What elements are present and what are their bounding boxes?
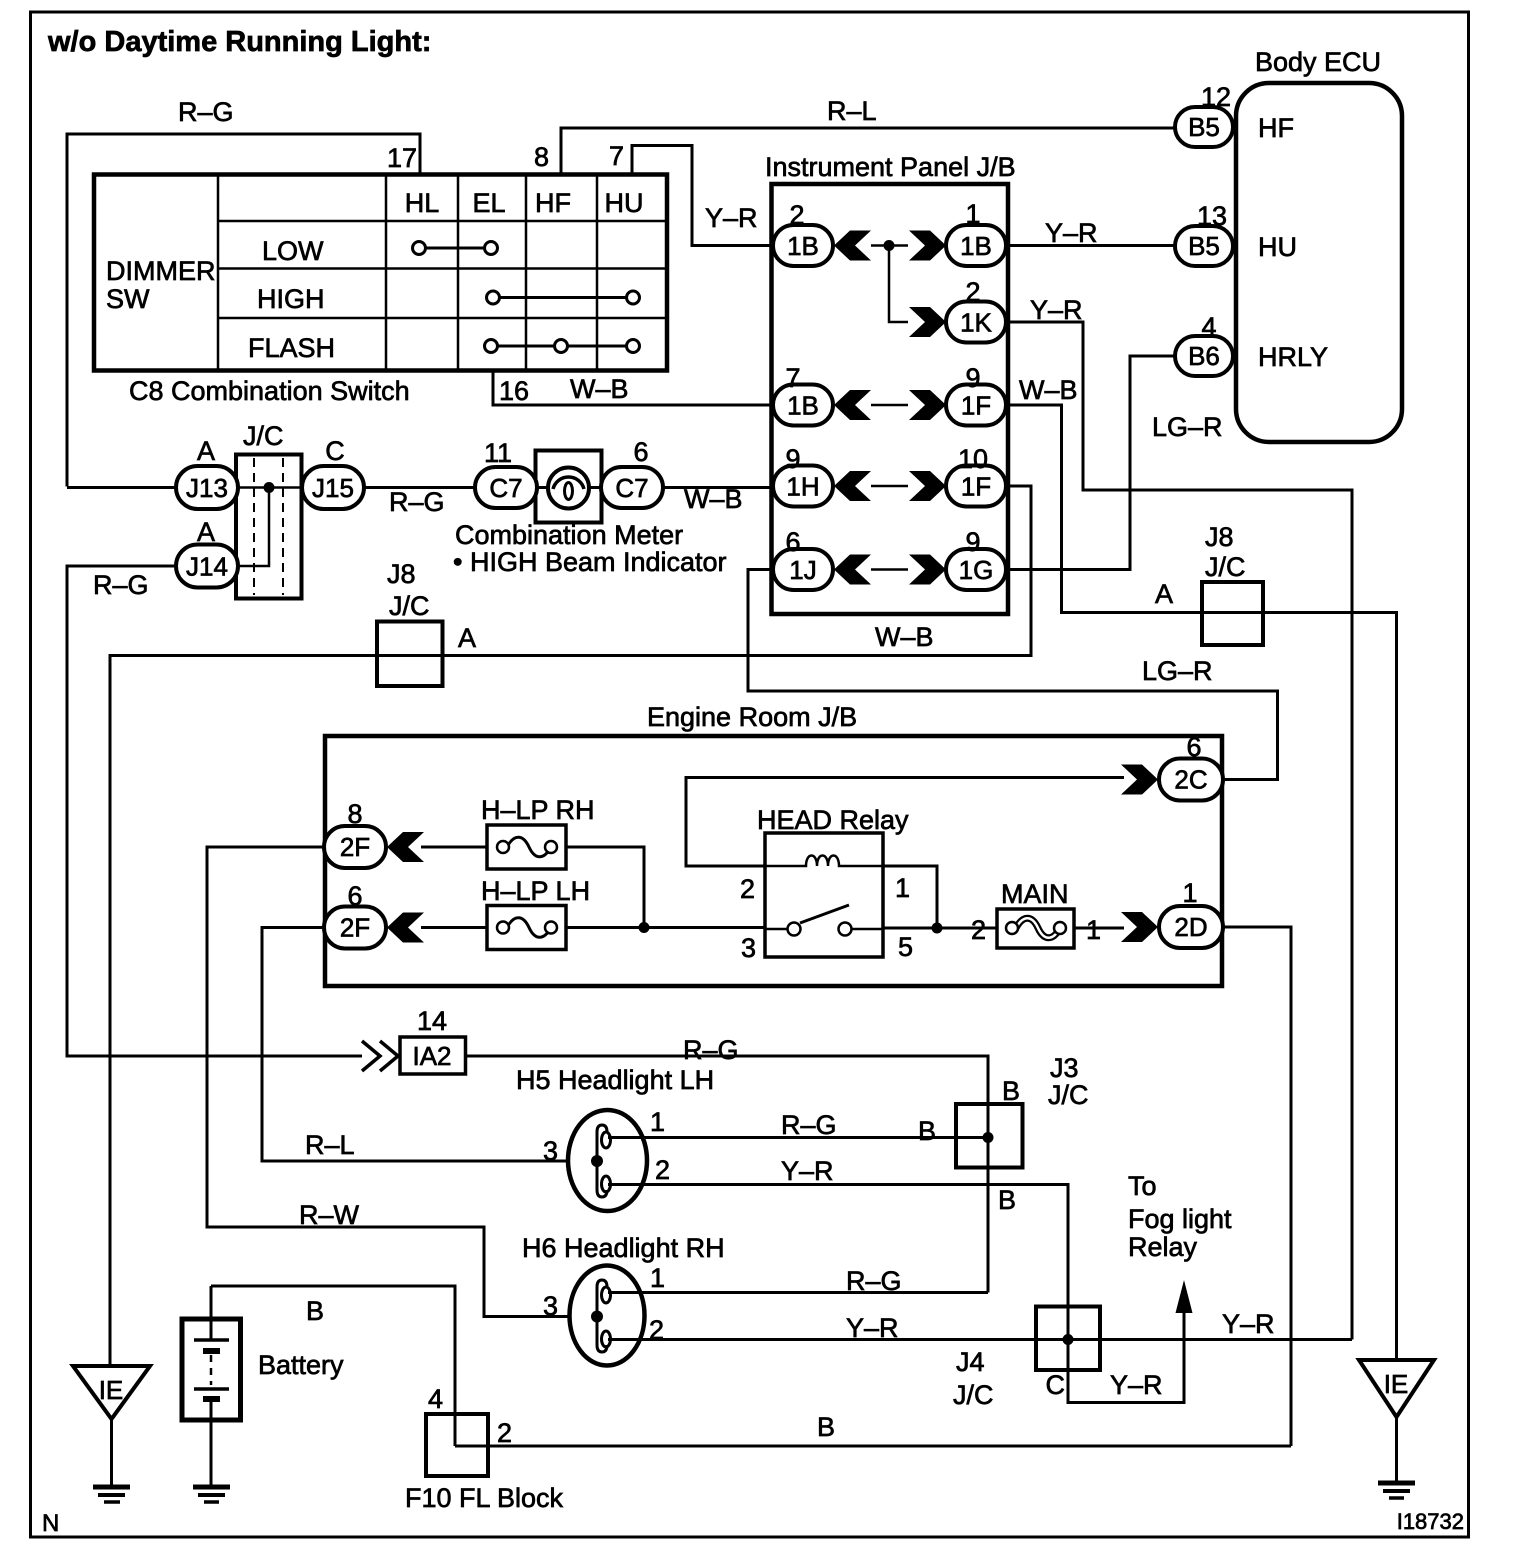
svg-text:A: A [458, 623, 476, 653]
svg-text:HF: HF [535, 188, 571, 218]
H5 Headlight LH [516, 1065, 714, 1211]
wire Y-R from H5 pin 2 to J4 [608, 1156, 1068, 1340]
svg-text:B6: B6 [1188, 341, 1220, 371]
svg-text:7: 7 [609, 141, 624, 171]
wire B from battery to F10 FL block [211, 1286, 455, 1446]
svg-text:2F: 2F [340, 832, 370, 862]
svg-text:12: 12 [1201, 82, 1231, 112]
svg-text:9: 9 [785, 444, 800, 474]
arrow into 1B pin7 (left) [834, 390, 871, 420]
svg-text:J3: J3 [1050, 1053, 1079, 1083]
svg-text:IE: IE [99, 1375, 124, 1405]
svg-text:SW: SW [106, 284, 150, 314]
svg-text:C8 Combination Switch: C8 Combination Switch [129, 376, 410, 406]
svg-text:9: 9 [965, 363, 980, 393]
connector 1B pin 1 [946, 199, 1006, 266]
svg-text:R–G: R–G [389, 487, 445, 517]
HEAD Relay [740, 805, 913, 963]
svg-text:Y–R: Y–R [846, 1313, 899, 1343]
connector C7 pin 6 [601, 437, 663, 508]
svg-text:R–G: R–G [781, 1110, 837, 1140]
svg-text:B: B [817, 1412, 835, 1442]
Body ECU box [1236, 47, 1402, 442]
wire Y-R from 1K pin 2 down right side [1006, 295, 1352, 1340]
svg-text:17: 17 [387, 143, 417, 173]
connector 1J pin 6 [773, 527, 833, 590]
svg-text:C7: C7 [489, 473, 522, 503]
svg-text:Y–R: Y–R [781, 1156, 834, 1186]
connector 1G pin 9 [946, 527, 1006, 590]
battery [182, 1286, 344, 1487]
svg-text:2: 2 [965, 277, 980, 307]
svg-text:1B: 1B [787, 231, 819, 261]
arrow into 1H pin9 (left) [834, 471, 871, 501]
svg-text:16: 16 [499, 376, 529, 406]
svg-text:11: 11 [484, 438, 512, 468]
wire R-G from H6 pin 1 to J3 vertical [608, 1266, 988, 1296]
junction and links inside Instrument Panel J/B [871, 240, 908, 570]
connector B6 pin 4 / HRLY [1175, 312, 1328, 376]
Instrument Panel J/B box [765, 152, 1016, 614]
svg-text:B: B [1002, 1076, 1020, 1106]
dimmer switch HIGH contact [487, 291, 640, 304]
Engine Room J/B box [325, 702, 1222, 986]
wire R-G from IA2 to J3 J/C [466, 1035, 989, 1293]
svg-text:EL: EL [472, 188, 505, 218]
svg-text:6: 6 [633, 437, 648, 467]
svg-text:3: 3 [543, 1136, 558, 1166]
arrow into 1G pin9 (right) [909, 555, 946, 585]
svg-text:R–L: R–L [305, 1130, 355, 1160]
svg-text:J15: J15 [312, 473, 354, 503]
svg-text:14: 14 [417, 1006, 447, 1036]
svg-text:Combination Meter: Combination Meter [455, 520, 683, 550]
arrow into 1B pin2 (left) [834, 231, 871, 261]
svg-text:6: 6 [347, 881, 362, 911]
ground IE right [1359, 1360, 1434, 1498]
wire Y-R from 1B pin 1 to Body ECU B5 pin 13 [1006, 218, 1175, 248]
connector J15 pin C [302, 436, 364, 509]
svg-text:5: 5 [898, 932, 913, 962]
svg-text:1: 1 [1086, 915, 1101, 945]
svg-text:1: 1 [650, 1107, 665, 1137]
connector 1F pin 9 [946, 363, 1006, 426]
svg-text:W–B: W–B [1019, 375, 1078, 405]
svg-text:2: 2 [971, 915, 986, 945]
svg-text:R–G: R–G [178, 97, 234, 127]
connector 1H pin 9 [773, 444, 833, 507]
svg-text:6: 6 [1186, 732, 1201, 762]
svg-text:3: 3 [741, 933, 756, 963]
svg-text:MAIN: MAIN [1001, 879, 1069, 909]
F10 FL Block [405, 1384, 564, 1513]
svg-text:1K: 1K [960, 308, 992, 338]
J8 J/C right box [1155, 522, 1263, 645]
wire R-L from 2F pin 6 to H5 headlight pin 3 [262, 928, 594, 1162]
svg-text:B: B [998, 1185, 1016, 1215]
svg-text:2F: 2F [340, 913, 370, 943]
svg-text:J/C: J/C [1048, 1080, 1089, 1110]
connector J14 pin A [176, 517, 238, 588]
svg-text:LG–R: LG–R [1152, 412, 1223, 442]
svg-text:F10 FL Block: F10 FL Block [405, 1483, 564, 1513]
svg-text:Battery: Battery [258, 1350, 344, 1380]
wire R-G from J14 down to IA2 [67, 566, 362, 1056]
wire R-G from J15 to combination meter C7 [364, 487, 475, 517]
svg-text:W–B: W–B [570, 374, 629, 404]
svg-text:7: 7 [785, 363, 800, 393]
svg-text:1: 1 [895, 873, 910, 903]
svg-text:J8: J8 [387, 559, 416, 589]
IA2 connector with chevrons [362, 1006, 466, 1074]
wire R-G from combination switch pin 17 [67, 97, 420, 487]
wire R-L from pin 8 to Body ECU B5 pin 12 [561, 96, 1175, 175]
wire Y-R from J4 to fog light relay arrow [1068, 1309, 1275, 1403]
combination switch C8 table [94, 175, 667, 371]
svg-text:J/C: J/C [389, 591, 430, 621]
svg-text:C: C [325, 436, 345, 466]
svg-text:H5 Headlight LH: H5 Headlight LH [516, 1065, 714, 1095]
svg-text:B: B [306, 1296, 324, 1326]
ground IE left [73, 1366, 150, 1502]
svg-text:A: A [1155, 579, 1173, 609]
ground battery [193, 1487, 230, 1502]
svg-text:2: 2 [740, 874, 755, 904]
arrow into 2C pin 6 [1121, 765, 1158, 795]
arrow into 1F pin9 (right) [909, 390, 946, 420]
wire LG-R from 1J pin 6 to Engine Room 2C pin 6 [748, 570, 1278, 780]
svg-text:FLASH: FLASH [248, 333, 335, 363]
svg-text:• HIGH Beam Indicator: • HIGH Beam Indicator [453, 547, 727, 577]
dimmer switch FLASH contact [485, 340, 640, 353]
arrow into 2F pin 8 [387, 832, 424, 862]
svg-text:IA2: IA2 [412, 1041, 451, 1071]
svg-text:2D: 2D [1174, 912, 1207, 942]
svg-text:10: 10 [958, 444, 988, 474]
wire relay coil pin 2 to 2C pin 6 [686, 778, 1124, 867]
svg-text:A: A [197, 436, 215, 466]
wire R-W from 2F pin 8 to H6 headlight pin 3 [207, 847, 594, 1317]
svg-text:1B: 1B [960, 231, 992, 261]
junction dot fuse outputs [639, 922, 650, 933]
wire Y-R from H6 pin 2 to J4 and 1K vertical [608, 1313, 1352, 1343]
svg-text:Y–R: Y–R [1030, 295, 1083, 325]
wire W-B from C7 pin 6 to 1H [663, 484, 773, 514]
svg-text:Relay: Relay [1128, 1232, 1198, 1262]
connector 1B pin 2 [773, 200, 833, 266]
J3 J/C box [918, 1053, 1089, 1215]
wire Y-R from pin 7 to 1B pin 2 [632, 146, 773, 246]
wire B from F10 FL block to 2D vertical [455, 1412, 1291, 1448]
arrow into 1J pin6 (left) [834, 555, 871, 585]
connector 2C pin 6 [1159, 732, 1223, 801]
svg-text:J13: J13 [186, 473, 228, 503]
wire relay pin 5 to MAIN fuse to 2D [883, 927, 1124, 930]
J8 J/C left box [377, 559, 476, 686]
svg-text:3: 3 [543, 1291, 558, 1321]
wire relay pin 1 down to pin 5 output [883, 866, 937, 928]
svg-text:J/C: J/C [953, 1380, 994, 1410]
H6 Headlight RH [522, 1233, 725, 1366]
svg-text:IE: IE [1384, 1369, 1409, 1399]
wire W-B from 1F pin 9 through J8 J/C to right IE ground [1006, 375, 1397, 1360]
svg-text:B5: B5 [1188, 112, 1220, 142]
svg-text:Y–R: Y–R [1110, 1370, 1163, 1400]
MAIN fusible link [971, 879, 1101, 948]
svg-text:J/C: J/C [1205, 552, 1246, 582]
arrow into 2F pin 6 [387, 913, 424, 943]
fuse H-LP RH [481, 795, 595, 869]
svg-text:2C: 2C [1174, 765, 1207, 795]
svg-text:1J: 1J [789, 555, 816, 585]
svg-text:LOW: LOW [262, 236, 324, 266]
svg-text:W–B: W–B [684, 484, 743, 514]
wire LG-R from 1G pin 9 to Body ECU B6 pin 4 [1006, 356, 1223, 570]
wire W-B ground bus through left J8 J/C from 1F pin 10 [110, 486, 1031, 1366]
svg-text:9: 9 [965, 527, 980, 557]
svg-text:C7: C7 [615, 473, 648, 503]
svg-text:1: 1 [650, 1263, 665, 1293]
arrow into 2D pin 1 [1121, 912, 1158, 942]
fog light relay arrow [1128, 1171, 1232, 1313]
svg-text:I18732: I18732 [1397, 1509, 1464, 1534]
combination meter high beam indicator bulb [536, 451, 602, 523]
connector B5 pin 12 / HF [1175, 82, 1294, 147]
svg-text:R–L: R–L [827, 96, 877, 126]
dimmer switch LOW contact [413, 242, 498, 255]
svg-text:8: 8 [347, 799, 362, 829]
svg-text:1F: 1F [961, 391, 991, 421]
svg-text:HIGH: HIGH [257, 284, 325, 314]
connector 1F pin 10 [946, 444, 1006, 507]
svg-text:1: 1 [965, 199, 980, 229]
svg-text:6: 6 [785, 527, 800, 557]
svg-text:H–LP RH: H–LP RH [481, 795, 595, 825]
svg-text:HF: HF [1258, 113, 1294, 143]
svg-text:1F: 1F [961, 472, 991, 502]
svg-text:1H: 1H [786, 472, 819, 502]
J4 J/C box [953, 1307, 1100, 1411]
svg-text:Y–R: Y–R [1222, 1309, 1275, 1339]
connector 2D pin 1 [1159, 878, 1223, 948]
svg-text:J8: J8 [1205, 522, 1234, 552]
svg-text:R–G: R–G [846, 1266, 902, 1296]
svg-text:N: N [42, 1510, 59, 1537]
connector 2F pin 8 [324, 799, 386, 868]
svg-text:C: C [1046, 1370, 1066, 1400]
svg-text:1: 1 [1182, 878, 1197, 908]
svg-text:W–B: W–B [875, 622, 934, 652]
fuse H-LP LH [481, 876, 590, 950]
svg-text:Engine Room J/B: Engine Room J/B [647, 702, 857, 732]
svg-text:A: A [197, 517, 215, 547]
svg-text:8: 8 [534, 142, 549, 172]
svg-text:R–G: R–G [683, 1035, 739, 1065]
svg-text:Instrument Panel J/B: Instrument Panel J/B [765, 152, 1016, 182]
svg-text:To: To [1128, 1171, 1157, 1201]
svg-text:2: 2 [789, 200, 804, 230]
svg-text:J4: J4 [956, 1347, 985, 1377]
connector 1K pin 2 [946, 277, 1006, 343]
svg-text:H6 Headlight RH: H6 Headlight RH [522, 1233, 725, 1263]
wire 2F6 arrow to H-LP LH fuse to relay pin 3 [421, 926, 765, 929]
svg-text:Fog light: Fog light [1128, 1204, 1232, 1234]
svg-text:2: 2 [497, 1418, 512, 1448]
J/C junction block (J13/J14/J15) [236, 421, 302, 599]
svg-text:LG–R: LG–R [1142, 656, 1213, 686]
svg-text:13: 13 [1197, 201, 1227, 231]
svg-text:B5: B5 [1188, 231, 1220, 261]
svg-text:1B: 1B [787, 391, 819, 421]
svg-text:4: 4 [428, 1384, 443, 1414]
connector B5 pin 13 / HU [1175, 201, 1297, 266]
svg-text:R–W: R–W [299, 1200, 360, 1230]
wire R-G from H5 pin 1 to J3 [608, 1110, 988, 1140]
wire 2F8 arrow to H-LP RH fuse and down to junction [421, 847, 644, 928]
svg-text:DIMMER: DIMMER [106, 256, 216, 286]
junction dot relay pin1/pin5 [932, 923, 943, 934]
svg-text:1G: 1G [959, 555, 994, 585]
svg-text:2: 2 [655, 1155, 670, 1185]
svg-text:2: 2 [649, 1315, 664, 1345]
svg-text:w/o Daytime Running Light:: w/o Daytime Running Light: [47, 26, 431, 58]
svg-text:HU: HU [1258, 232, 1297, 262]
svg-text:HL: HL [405, 188, 440, 218]
svg-text:J/C: J/C [243, 421, 284, 451]
connector 2F pin 6 [324, 881, 386, 949]
svg-text:4: 4 [1201, 312, 1216, 342]
arrow into 1K pin2 (right) [909, 307, 946, 337]
connector 1B pin 7 [773, 363, 833, 426]
wire 2D pin 1 to B wire down [1223, 927, 1291, 1446]
svg-text:HU: HU [605, 188, 644, 218]
svg-text:H–LP LH: H–LP LH [481, 876, 590, 906]
svg-text:Y–R: Y–R [1045, 218, 1098, 248]
wire R-G from left vertical to J13 [67, 486, 176, 489]
arrow into 1B pin1 (right) [909, 231, 946, 261]
connector C7 pin 11 [475, 438, 537, 508]
svg-text:Y–R: Y–R [705, 203, 758, 233]
svg-text:J14: J14 [186, 552, 228, 582]
label Combination Meter [453, 520, 727, 577]
wire W-B from pin 16 to 1B pin 7 [493, 371, 773, 407]
svg-text:HRLY: HRLY [1258, 342, 1328, 372]
svg-text:R–G: R–G [93, 570, 149, 600]
svg-text:HEAD Relay: HEAD Relay [757, 805, 909, 835]
connector J13 pin A [176, 436, 238, 509]
svg-text:Body ECU: Body ECU [1255, 47, 1381, 77]
arrow into 1F pin10 (right) [909, 471, 946, 501]
svg-text:B: B [918, 1116, 936, 1146]
